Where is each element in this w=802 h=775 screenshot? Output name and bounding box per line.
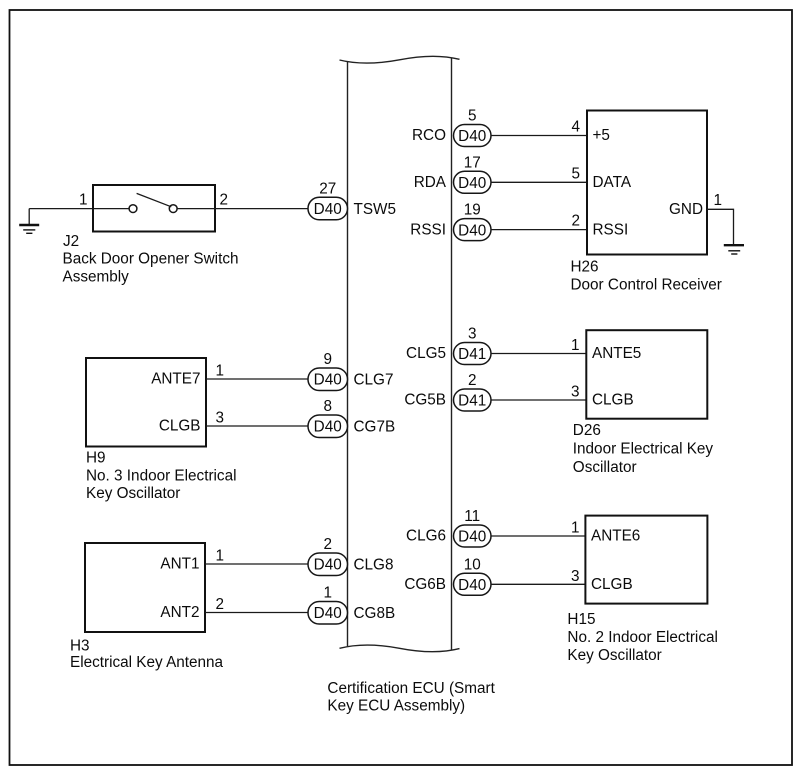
- wire H3 pin2 to D40: [205, 612, 309, 614]
- connector D40 pin 19 (RSSI): [454, 219, 492, 241]
- oscillator D26 box: [586, 330, 707, 419]
- svg-text:D26: D26: [573, 422, 601, 439]
- wire RSSI to H26 pin 2: [491, 229, 587, 231]
- connector D40 pin 2 (CLG8): [308, 553, 348, 576]
- connector D40 pin 11 (CLG6): [454, 525, 492, 547]
- svg-text:J2: J2: [63, 233, 79, 250]
- ground (left, J2 circuit): [19, 209, 39, 234]
- svg-text:RSSI: RSSI: [593, 221, 629, 238]
- svg-text:17: 17: [464, 154, 481, 171]
- wire H9 pin3 to D40: [206, 425, 309, 427]
- svg-text:TSW5: TSW5: [354, 201, 397, 218]
- wire ground to J2 pin 1: [29, 208, 129, 210]
- switch J2 box: [93, 185, 215, 232]
- svg-text:RSSI: RSSI: [410, 221, 446, 238]
- svg-text:CLG5: CLG5: [406, 345, 446, 362]
- svg-text:CLG8: CLG8: [354, 557, 394, 574]
- svg-text:3: 3: [216, 410, 225, 427]
- svg-text:D40: D40: [314, 605, 342, 622]
- oscillator H3 box: [85, 543, 205, 632]
- svg-text:D40: D40: [314, 419, 342, 436]
- svg-text:2: 2: [468, 372, 477, 389]
- svg-text:Key ECU Assembly): Key ECU Assembly): [327, 698, 465, 715]
- svg-text:H3: H3: [70, 638, 90, 655]
- label H26 Door Control Receiver: [571, 259, 722, 294]
- connector D41 pin 3 (CLG5): [454, 343, 492, 365]
- svg-text:RCO: RCO: [412, 127, 446, 144]
- wire CG5B to D26 pin 3: [491, 399, 586, 401]
- svg-text:3: 3: [468, 326, 477, 343]
- svg-text:2: 2: [216, 596, 225, 613]
- svg-text:Oscillator: Oscillator: [573, 459, 637, 476]
- connector D40 pin 5 (RCO): [454, 125, 492, 147]
- svg-text:D40: D40: [458, 577, 486, 594]
- label H15 No. 2 Indoor Electrical Key Oscillator: [567, 611, 718, 664]
- svg-text:1: 1: [323, 585, 332, 602]
- label J2 Back Door Opener Switch Assembly: [63, 233, 239, 285]
- wire H26 GND to ground: [707, 209, 734, 244]
- Certification ECU band bottom torn edge: [340, 645, 460, 652]
- svg-text:1: 1: [571, 520, 580, 537]
- svg-text:D40: D40: [458, 529, 486, 546]
- svg-text:D40: D40: [458, 175, 486, 192]
- svg-text:CG7B: CG7B: [354, 419, 396, 436]
- svg-text:2: 2: [220, 192, 229, 209]
- Certification ECU band top torn edge: [340, 56, 460, 63]
- wire H9 pin1 to D40: [206, 378, 309, 380]
- wire H3 pin1 to D40: [205, 563, 309, 565]
- svg-text:11: 11: [464, 508, 480, 525]
- wire CG6B to H15 pin 3: [491, 583, 585, 585]
- svg-text:H15: H15: [567, 611, 595, 628]
- label H9 No. 3 Indoor Electrical Key Oscillator: [86, 450, 237, 503]
- svg-text:Assembly: Assembly: [63, 268, 130, 285]
- svg-text:ANTE5: ANTE5: [592, 345, 641, 362]
- connector D40 pin 9 (CLG7): [308, 368, 348, 391]
- connector D40 pin 10 (CG6B): [454, 573, 492, 595]
- connector D40 pin 8 (CG7B): [308, 415, 348, 438]
- svg-text:CG6B: CG6B: [404, 576, 446, 593]
- svg-text:GND: GND: [669, 201, 703, 218]
- wire RDA to H26 pin 5: [491, 181, 587, 183]
- wire CLG5 to D26 pin 1: [491, 353, 586, 355]
- svg-text:3: 3: [571, 568, 580, 585]
- svg-text:RDA: RDA: [414, 174, 447, 191]
- svg-text:D40: D40: [314, 557, 342, 574]
- ground (right, H26): [724, 245, 744, 254]
- svg-text:19: 19: [464, 202, 481, 219]
- svg-text:27: 27: [319, 180, 336, 197]
- wire J2 pin2 to connector D40: [177, 208, 308, 210]
- svg-text:DATA: DATA: [593, 174, 632, 191]
- svg-text:10: 10: [464, 556, 481, 573]
- svg-text:1: 1: [79, 192, 88, 209]
- svg-text:4: 4: [571, 119, 580, 136]
- svg-text:2: 2: [323, 536, 332, 553]
- label H3 Electrical Key Antenna: [70, 638, 224, 672]
- svg-text:CLGB: CLGB: [591, 576, 633, 593]
- svg-text:1: 1: [216, 363, 225, 380]
- connector D40 pin 1 (CG8B): [308, 602, 348, 625]
- Certification ECU band right line: [451, 58, 453, 650]
- svg-text:H9: H9: [86, 450, 106, 467]
- switch J2 contacts and blade: [129, 193, 177, 212]
- svg-text:D41: D41: [458, 346, 486, 363]
- svg-text:CLGB: CLGB: [592, 392, 634, 409]
- svg-text:H26: H26: [571, 259, 599, 276]
- wire RCO to H26 pin 4: [491, 135, 587, 137]
- svg-text:CLG6: CLG6: [406, 528, 446, 545]
- svg-text:D40: D40: [314, 201, 342, 218]
- svg-text:5: 5: [571, 165, 580, 182]
- svg-text:8: 8: [323, 398, 332, 415]
- svg-text:D41: D41: [458, 393, 486, 410]
- svg-text:Key Oscillator: Key Oscillator: [86, 485, 180, 502]
- svg-text:D40: D40: [458, 222, 486, 239]
- svg-text:Key Oscillator: Key Oscillator: [567, 647, 661, 664]
- svg-text:1: 1: [216, 548, 225, 565]
- svg-text:ANTE6: ANTE6: [591, 528, 640, 545]
- label Certification ECU (Smart Key ECU Assembly): [327, 680, 495, 715]
- label D26 Indoor Electrical Key Oscillator: [573, 422, 714, 476]
- svg-text:ANTE7: ANTE7: [151, 371, 200, 388]
- svg-text:CLGB: CLGB: [159, 418, 201, 435]
- oscillator H9 box: [86, 358, 206, 447]
- svg-text:Door Control Receiver: Door Control Receiver: [571, 276, 722, 293]
- receiver H26 box: [587, 111, 707, 255]
- svg-text:ANT1: ANT1: [160, 556, 199, 573]
- svg-text:2: 2: [571, 213, 580, 230]
- svg-text:3: 3: [571, 384, 580, 401]
- svg-text:Electrical Key Antenna: Electrical Key Antenna: [70, 654, 224, 671]
- svg-text:Back Door Opener Switch: Back Door Opener Switch: [63, 251, 239, 268]
- connector D41 pin 2 (CG5B): [454, 389, 492, 411]
- wire CLG6 to H15 pin 1: [491, 535, 585, 537]
- oscillator H15 box: [585, 516, 707, 604]
- Certification ECU band left line: [347, 61, 349, 646]
- svg-text:CG8B: CG8B: [354, 605, 396, 622]
- svg-text:CG5B: CG5B: [404, 392, 446, 409]
- svg-text:D40: D40: [458, 128, 486, 145]
- svg-text:1: 1: [571, 337, 580, 354]
- svg-text:No. 3 Indoor Electrical: No. 3 Indoor Electrical: [86, 467, 237, 484]
- svg-text:No. 2 Indoor Electrical: No. 2 Indoor Electrical: [567, 629, 718, 646]
- svg-text:1: 1: [714, 192, 723, 209]
- svg-text:5: 5: [468, 108, 477, 125]
- svg-text:Indoor Electrical Key: Indoor Electrical Key: [573, 441, 714, 458]
- connector D40 pin 27 (TSW5): [308, 197, 348, 220]
- connector D40 pin 17 (RDA): [454, 171, 492, 193]
- svg-text:+5: +5: [593, 127, 610, 144]
- svg-text:D40: D40: [314, 372, 342, 389]
- svg-text:CLG7: CLG7: [354, 372, 394, 389]
- svg-text:ANT2: ANT2: [160, 604, 199, 621]
- svg-text:Certification ECU (Smart: Certification ECU (Smart: [327, 680, 495, 697]
- svg-text:9: 9: [323, 351, 332, 368]
